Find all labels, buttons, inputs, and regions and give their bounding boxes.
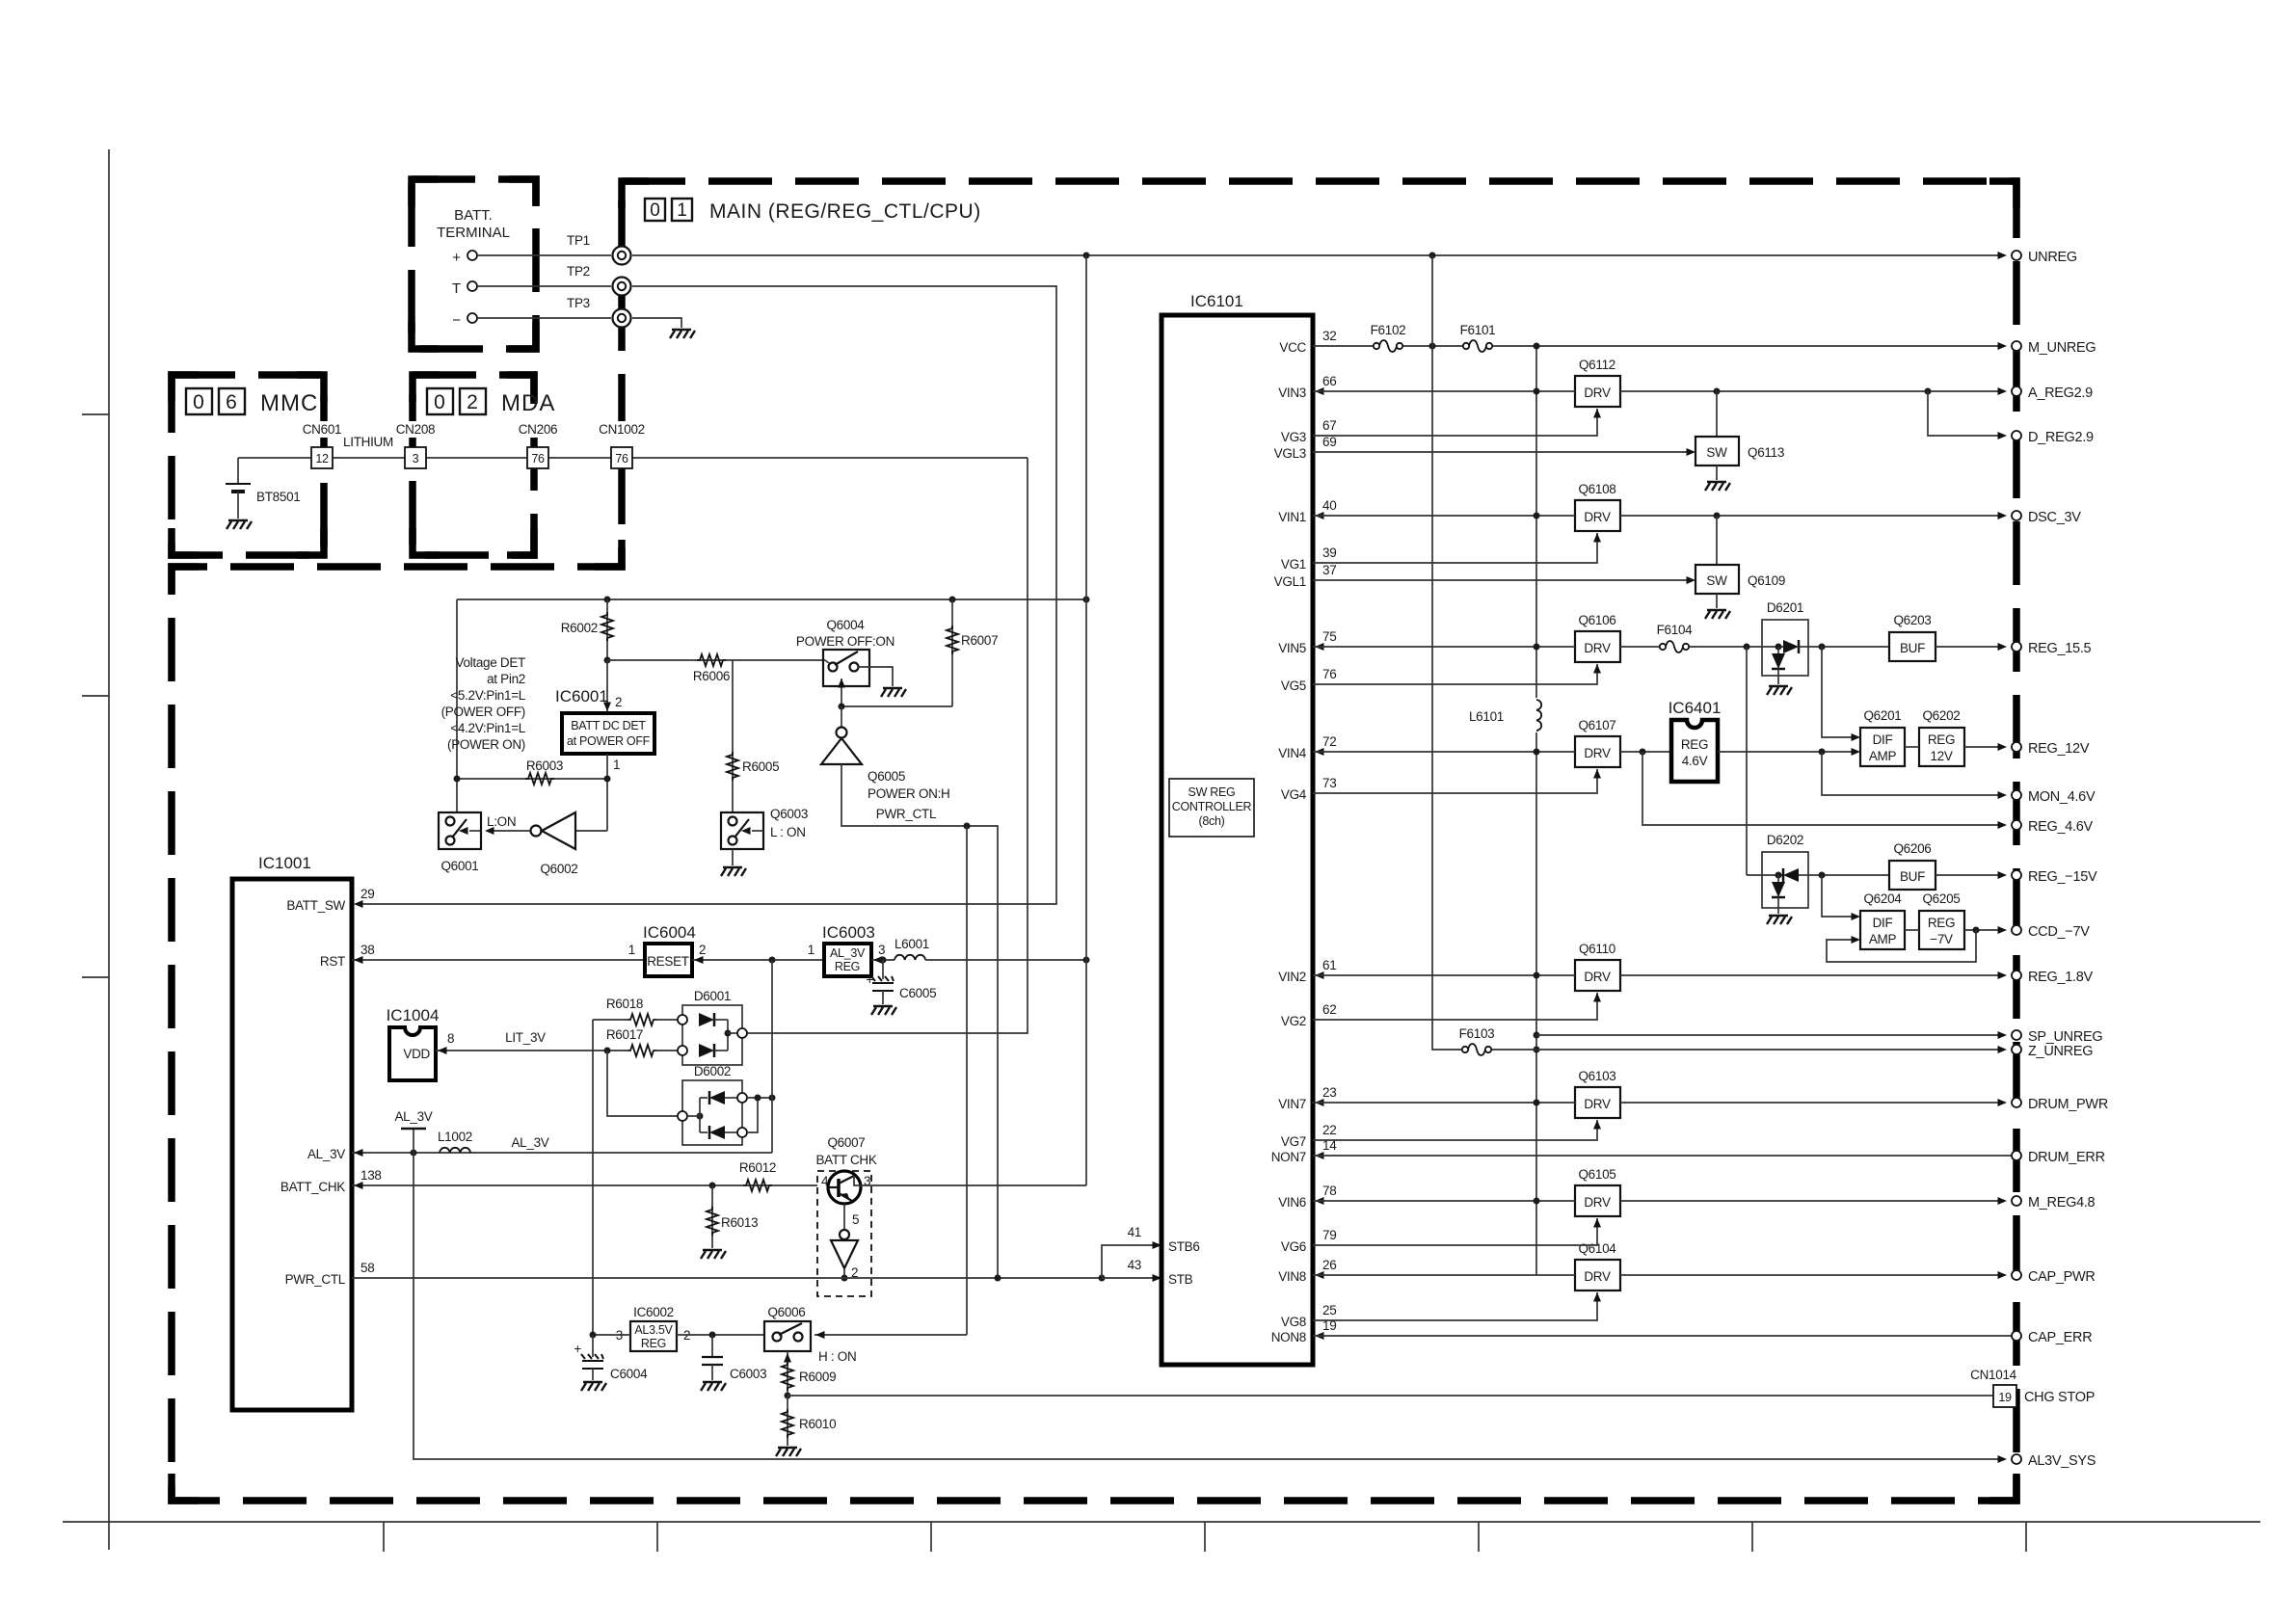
svg-text:CN1002: CN1002 <box>599 422 645 437</box>
svg-text:VG3: VG3 <box>1281 430 1306 444</box>
node REG_4.6V <box>2012 820 2021 830</box>
svg-text:REG: REG <box>1928 732 1955 747</box>
svg-text:D6002: D6002 <box>694 1064 731 1078</box>
svg-text:69: 69 <box>1322 435 1336 449</box>
svg-text:66: 66 <box>1322 374 1336 388</box>
svg-text:CAP_PWR: CAP_PWR <box>2028 1269 2096 1285</box>
wire R6007 bottom to Q6005 node <box>841 705 952 707</box>
svg-text:IC6401: IC6401 <box>1669 699 1722 717</box>
ground Q6109 <box>1705 610 1730 619</box>
svg-text:CONTROLLER: CONTROLLER <box>1172 800 1252 813</box>
svg-text:Q6204: Q6204 <box>1863 891 1902 906</box>
svg-text:VG7: VG7 <box>1281 1134 1306 1149</box>
svg-text:Q6205: Q6205 <box>1922 891 1960 906</box>
connector CN206 pin 76 <box>513 421 563 468</box>
fuse F6103 <box>1462 1044 1491 1055</box>
node SP_UNREG <box>2012 1030 2021 1040</box>
svg-text:VGL3: VGL3 <box>1274 446 1306 461</box>
svg-text:DRV: DRV <box>1584 386 1611 400</box>
svg-text:73: 73 <box>1322 776 1336 790</box>
svg-text:L:ON: L:ON <box>487 814 516 829</box>
wire VG to DRV <box>1313 664 1597 684</box>
svg-text:R6007: R6007 <box>961 633 998 648</box>
svg-text:<4.2V:Pin1=L: <4.2V:Pin1=L <box>450 721 526 735</box>
block BATT.TERMINAL dashed box <box>412 179 536 349</box>
svg-text:RST: RST <box>320 954 345 969</box>
svg-text:REG_−15V: REG_−15V <box>2028 869 2097 885</box>
svg-text:58: 58 <box>360 1261 374 1275</box>
svg-text:SW: SW <box>1706 573 1727 588</box>
svg-text:VGL1: VGL1 <box>1274 574 1306 589</box>
svg-text:R6009: R6009 <box>799 1370 836 1384</box>
wire Q6004 left joins R6006 <box>825 660 829 663</box>
svg-text:CN601: CN601 <box>303 422 342 437</box>
transistor Q6206 BUF <box>1808 874 1889 876</box>
wire CCD feedback loop <box>1827 930 1976 962</box>
transistor Q6113 SW <box>1716 391 1718 437</box>
svg-text:(8ch): (8ch) <box>1199 814 1225 828</box>
svg-text:Q6007: Q6007 <box>827 1135 865 1150</box>
wire T to TP2 <box>477 285 611 287</box>
svg-text:REG: REG <box>641 1337 666 1350</box>
wire BATT_CHK line <box>352 1184 817 1186</box>
svg-text:AL_3V: AL_3V <box>511 1135 548 1150</box>
svg-text:41: 41 <box>1128 1225 1141 1239</box>
svg-text:29: 29 <box>360 887 374 901</box>
svg-text:CN1014: CN1014 <box>1970 1368 2017 1382</box>
wire to BUF Q6203 <box>1808 646 1889 648</box>
wire VG to DRV <box>1313 769 1597 793</box>
svg-text:CCD_−7V: CCD_−7V <box>2028 924 2090 940</box>
svg-text:F6104: F6104 <box>1657 623 1694 637</box>
svg-text:VIN6: VIN6 <box>1278 1195 1306 1210</box>
svg-text:R6005: R6005 <box>742 759 779 774</box>
wire VIN row <box>1313 1274 1575 1276</box>
svg-text:TP3: TP3 <box>567 296 590 310</box>
svg-text:39: 39 <box>1322 545 1336 560</box>
wire VCC row with fuses <box>1313 345 2005 347</box>
svg-text:VIN3: VIN3 <box>1278 386 1306 400</box>
svg-text:D6202: D6202 <box>1767 833 1803 847</box>
svg-text:DRUM_PWR: DRUM_PWR <box>2028 1097 2108 1112</box>
svg-text:DRV: DRV <box>1584 970 1611 984</box>
node DRUM_PWR <box>2012 1098 2021 1107</box>
fuse F6104 <box>1620 646 1659 648</box>
svg-text:REG_15.5: REG_15.5 <box>2028 641 2092 656</box>
svg-text:Q6113: Q6113 <box>1748 445 1784 460</box>
svg-text:23: 23 <box>1322 1085 1336 1100</box>
svg-text:32: 32 <box>1322 329 1336 343</box>
solid corners for dashed borders <box>172 179 2016 1501</box>
wire Q6004 right to ground <box>858 667 893 686</box>
svg-text:Q6112: Q6112 <box>1579 358 1615 372</box>
svg-text:C6005: C6005 <box>899 986 936 1000</box>
svg-text:138: 138 <box>360 1168 382 1183</box>
svg-text:REG: REG <box>1928 916 1955 930</box>
wire VG to DRV <box>1313 1292 1597 1320</box>
svg-text:R6013: R6013 <box>721 1215 758 1230</box>
svg-text:AL_3V: AL_3V <box>307 1147 345 1161</box>
svg-text:72: 72 <box>1322 734 1336 749</box>
svg-text:REG_1.8V: REG_1.8V <box>2028 970 2094 985</box>
svg-text:Q6006: Q6006 <box>767 1305 805 1319</box>
wire VIN row <box>1313 390 1575 392</box>
svg-text:79: 79 <box>1322 1228 1336 1242</box>
svg-text:R6017: R6017 <box>606 1027 643 1042</box>
svg-text:1: 1 <box>808 943 814 957</box>
svg-text:Q6002: Q6002 <box>540 862 577 876</box>
svg-text:37: 37 <box>1322 563 1336 577</box>
connector CN1002 pin 76 <box>594 421 650 468</box>
svg-text:IC6004: IC6004 <box>643 923 696 942</box>
svg-text:DRV: DRV <box>1584 510 1611 524</box>
svg-text:−7V: −7V <box>1930 932 1953 946</box>
svg-text:STB: STB <box>1168 1272 1193 1287</box>
svg-text:PWR_CTL: PWR_CTL <box>285 1272 346 1287</box>
svg-text:IC6101: IC6101 <box>1190 292 1243 310</box>
IC6001 BATT DC DET box <box>606 660 608 711</box>
svg-text:Q6107: Q6107 <box>1578 718 1615 732</box>
svg-text:UNREG: UNREG <box>2028 250 2077 265</box>
svg-text:DRV: DRV <box>1584 1195 1611 1210</box>
wire UNREG vertical branch x1127 <box>1085 255 1087 1185</box>
svg-text:Q6109: Q6109 <box>1748 573 1785 588</box>
svg-text:67: 67 <box>1322 418 1336 433</box>
svg-text:DIF: DIF <box>1873 732 1893 747</box>
fuse F6102 <box>1373 340 1403 352</box>
wire lithium vertical to D6001 output node <box>742 458 1028 1033</box>
svg-text:BATT_CHK: BATT_CHK <box>280 1180 345 1194</box>
node DSC_3V <box>2012 511 2021 520</box>
wire AL3V_SYS long line <box>414 1153 2005 1459</box>
svg-text:Q6110: Q6110 <box>1579 942 1615 956</box>
svg-text:0: 0 <box>434 391 445 413</box>
svg-text:L6001: L6001 <box>894 937 929 951</box>
svg-text:STB6: STB6 <box>1168 1239 1200 1254</box>
wire VIN row <box>1313 515 1575 517</box>
svg-text:REG: REG <box>1681 737 1708 752</box>
svg-text:38: 38 <box>360 943 374 957</box>
svg-text:AL_3V: AL_3V <box>830 946 866 960</box>
node CAP_ERR <box>2012 1331 2021 1341</box>
svg-text:R6018: R6018 <box>606 997 643 1011</box>
node M_UNREG <box>2012 341 2021 351</box>
svg-text:R6010: R6010 <box>799 1417 836 1431</box>
svg-text:Z_UNREG: Z_UNREG <box>2028 1044 2093 1059</box>
arrow UNREG <box>1998 252 2008 259</box>
wire lithium line <box>238 457 1028 459</box>
svg-text:5: 5 <box>852 1212 859 1227</box>
transistor Q6001 switch <box>439 812 481 849</box>
wire D_REG2.9 branch <box>1928 391 2005 436</box>
node M_REG4.8 <box>2012 1196 2021 1206</box>
node CAP_PWR <box>2012 1270 2021 1280</box>
svg-text:CN206: CN206 <box>519 422 558 437</box>
node UNREG <box>2012 251 2021 260</box>
wire VG to DRV <box>1313 1218 1597 1245</box>
svg-text:Q6103: Q6103 <box>1578 1069 1615 1083</box>
svg-text:Q6203: Q6203 <box>1893 613 1931 627</box>
resistor R6002 <box>606 599 608 660</box>
svg-text:VIN4: VIN4 <box>1278 746 1307 760</box>
svg-text:R6012: R6012 <box>739 1160 776 1175</box>
wire STB6 branch <box>1102 1245 1154 1278</box>
node A_REG2.9 <box>2012 386 2021 396</box>
capacitor C6004 <box>592 1335 594 1357</box>
svg-text:CHG STOP: CHG STOP <box>2024 1390 2095 1405</box>
wire Q6007 pin3 to x1127 <box>875 1184 1086 1186</box>
buffer Q6005 POWER ON:H <box>841 706 842 728</box>
svg-text:Q6106: Q6106 <box>1578 613 1615 627</box>
node MON_4.6V <box>2012 790 2021 800</box>
svg-text:AL3.5V: AL3.5V <box>634 1323 673 1337</box>
node REG_-15V <box>2012 870 2021 880</box>
title 02 MDA <box>427 388 555 416</box>
svg-text:AL_3V: AL_3V <box>394 1109 432 1124</box>
svg-text:NON8: NON8 <box>1271 1330 1306 1344</box>
wire VG to DRV <box>1313 533 1597 563</box>
wire - to TP3 <box>477 317 611 319</box>
svg-text:Voltage DET: Voltage DET <box>456 655 526 670</box>
svg-text:43: 43 <box>1128 1258 1141 1272</box>
svg-text:C6003: C6003 <box>730 1367 766 1381</box>
svg-text:R6006: R6006 <box>693 669 730 683</box>
svg-text:VG2: VG2 <box>1281 1014 1306 1028</box>
svg-text:MAIN (REG/REG_CTL/CPU): MAIN (REG/REG_CTL/CPU) <box>709 200 981 223</box>
svg-text:C6004: C6004 <box>610 1367 648 1381</box>
svg-text:VG5: VG5 <box>1281 678 1306 693</box>
svg-text:12V: 12V <box>1930 749 1952 763</box>
svg-text:61: 61 <box>1322 958 1336 972</box>
ground BT8501 <box>227 520 252 529</box>
svg-text:BUF: BUF <box>1900 641 1925 655</box>
node DRUM_ERR <box>2012 1151 2021 1160</box>
connector CN208 pin 3 <box>390 421 441 468</box>
resistor R6007 <box>951 599 953 706</box>
wire A_REG2.9 output <box>1620 390 2005 392</box>
svg-text:VIN2: VIN2 <box>1278 970 1306 984</box>
svg-text:T: T <box>452 280 461 297</box>
wire REG_4.6V branch <box>1642 752 2005 825</box>
wire VG to DRV <box>1313 1120 1597 1140</box>
svg-text:22: 22 <box>1322 1123 1336 1137</box>
svg-text:Q6202: Q6202 <box>1922 708 1960 723</box>
svg-text:<5.2V:Pin1=L: <5.2V:Pin1=L <box>450 688 526 703</box>
svg-text:DRUM_ERR: DRUM_ERR <box>2028 1150 2105 1165</box>
svg-text:VG4: VG4 <box>1281 787 1307 802</box>
resistor R6013 <box>711 1185 713 1248</box>
svg-text:POWER ON:H: POWER ON:H <box>868 786 950 801</box>
svg-text:62: 62 <box>1322 1002 1336 1017</box>
svg-text:MMC: MMC <box>260 390 318 416</box>
title 06 MMC <box>186 388 318 416</box>
wire VIN row <box>1313 1102 1575 1104</box>
resistor R6003 <box>457 778 607 780</box>
svg-text:DRV: DRV <box>1584 1269 1611 1284</box>
svg-text:TERMINAL: TERMINAL <box>437 225 510 241</box>
svg-text:Q6206: Q6206 <box>1893 841 1931 856</box>
svg-text:Q6005: Q6005 <box>868 769 905 784</box>
wire DRUM_PWR output <box>1620 1102 2005 1104</box>
svg-text:DSC_3V: DSC_3V <box>2028 510 2081 525</box>
svg-text:M_REG4.8: M_REG4.8 <box>2028 1195 2096 1211</box>
svg-text:H : ON: H : ON <box>818 1349 856 1364</box>
svg-text:F6103: F6103 <box>1459 1026 1495 1041</box>
wire VGL1 to SW <box>1313 579 1688 581</box>
svg-text:Q6108: Q6108 <box>1578 482 1615 496</box>
svg-text:R6003: R6003 <box>526 758 563 773</box>
resistor R6010 <box>787 1396 788 1446</box>
svg-text:76: 76 <box>1322 667 1336 681</box>
block 01 MAIN dashed outline <box>172 181 2016 1501</box>
svg-text:F6102: F6102 <box>1371 323 1406 337</box>
svg-text:2: 2 <box>699 943 706 957</box>
svg-text:IC6001: IC6001 <box>555 687 608 705</box>
node REG_1.8V <box>2012 971 2021 980</box>
svg-text:4: 4 <box>821 1174 829 1188</box>
pin 8 LIT_3V <box>436 1050 627 1051</box>
svg-text:+: + <box>452 250 461 266</box>
svg-text:(POWER OFF): (POWER OFF) <box>441 705 525 719</box>
svg-text:CN208: CN208 <box>396 422 436 437</box>
svg-text:0: 0 <box>650 200 660 221</box>
inverter Q6002 <box>575 830 607 832</box>
block 06 MMC dashed box <box>172 375 324 555</box>
wire TP3 to ground <box>632 318 681 328</box>
svg-text:VG1: VG1 <box>1281 557 1306 572</box>
wire REG_1.8V output <box>1620 974 2005 976</box>
svg-text:12: 12 <box>315 452 329 466</box>
resistor R6012 <box>743 1180 772 1191</box>
svg-text:D6201: D6201 <box>1767 600 1803 615</box>
svg-text:BT8501: BT8501 <box>256 490 300 504</box>
svg-text:L1002: L1002 <box>438 1130 472 1144</box>
svg-text:TP1: TP1 <box>567 233 590 248</box>
capacitor C6003 <box>711 1335 713 1357</box>
svg-text:F6101: F6101 <box>1460 323 1496 337</box>
svg-text:IC6003: IC6003 <box>822 923 875 942</box>
svg-text:−: − <box>452 312 461 329</box>
svg-text:6: 6 <box>226 391 237 413</box>
ground Q6003 <box>732 849 734 865</box>
svg-text:2: 2 <box>467 391 478 413</box>
svg-text:BATT_SW: BATT_SW <box>286 898 345 913</box>
svg-text:8: 8 <box>447 1031 454 1046</box>
svg-text:TP2: TP2 <box>567 264 590 279</box>
svg-text:4.6V: 4.6V <box>1682 754 1708 768</box>
transistor Q6003 switch <box>721 812 763 849</box>
svg-text:VIN7: VIN7 <box>1278 1097 1306 1111</box>
capacitor C6005 <box>882 960 884 979</box>
AL_3V rail symbol <box>413 1129 414 1153</box>
svg-text:SP_UNREG: SP_UNREG <box>2028 1029 2102 1045</box>
wire AL_3V net vertical from IC6003 junction <box>771 960 773 1153</box>
wire IC6003 input <box>871 959 894 961</box>
svg-text:L : ON: L : ON <box>770 825 806 839</box>
svg-text:+: + <box>574 1342 581 1356</box>
wire RST line <box>352 959 645 961</box>
title 01 MAIN (REG/REG_CTL/CPU) <box>645 199 981 223</box>
resistor R6005 <box>732 660 734 812</box>
svg-text:1: 1 <box>613 758 620 772</box>
wire VG to DRV <box>1313 409 1597 436</box>
svg-text:40: 40 <box>1322 498 1336 513</box>
connector CN601 pin 12 <box>297 421 347 468</box>
svg-text:BATT.: BATT. <box>454 207 493 224</box>
svg-text:SW REG: SW REG <box>1188 785 1236 799</box>
wire DSC_3V output <box>1620 515 2005 517</box>
wire unreg branch x1486 <box>1432 255 1461 1050</box>
svg-text:A_REG2.9: A_REG2.9 <box>2028 386 2093 401</box>
svg-text:VIN1: VIN1 <box>1278 510 1306 524</box>
svg-text:DRV: DRV <box>1584 1097 1611 1111</box>
wire Q6107 to IC6401 <box>1620 751 1671 753</box>
svg-text:CAP_ERR: CAP_ERR <box>2028 1330 2092 1345</box>
svg-text:LIT_3V: LIT_3V <box>505 1030 546 1045</box>
wire AL_3V line to IC1001 <box>352 1152 772 1154</box>
svg-text:POWER OFF:ON: POWER OFF:ON <box>796 634 894 649</box>
svg-text:L6101: L6101 <box>1469 709 1504 724</box>
svg-text:BATT CHK: BATT CHK <box>815 1153 876 1167</box>
wire M_REG4.8 output <box>1620 1200 2005 1202</box>
svg-text:M_UNREG: M_UNREG <box>2028 340 2096 356</box>
wire PWR_CTL / STB line <box>352 1277 1102 1279</box>
svg-text:Q6003: Q6003 <box>770 807 808 821</box>
svg-text:Q6105: Q6105 <box>1578 1167 1615 1182</box>
svg-text:0: 0 <box>193 391 204 413</box>
wire VG to DRV <box>1313 993 1597 1020</box>
svg-text:PWR_CTL: PWR_CTL <box>876 807 937 821</box>
wire PWR_CTL from Q6005 <box>841 764 998 1278</box>
wire VIN row <box>1313 974 1575 976</box>
svg-text:76: 76 <box>615 452 628 466</box>
svg-text:at Pin2: at Pin2 <box>487 672 525 686</box>
wire VIN row <box>1313 1200 1575 1202</box>
svg-text:Q6004: Q6004 <box>826 618 865 632</box>
svg-text:REG_12V: REG_12V <box>2028 741 2090 757</box>
wire CHG STOP line <box>788 1395 1993 1397</box>
svg-text:D_REG2.9: D_REG2.9 <box>2028 430 2094 445</box>
svg-text:26: 26 <box>1322 1258 1336 1272</box>
svg-text:DIF: DIF <box>1873 916 1893 930</box>
svg-text:VCC: VCC <box>1279 340 1306 355</box>
svg-text:1: 1 <box>677 200 687 221</box>
node Z_UNREG <box>2012 1045 2021 1054</box>
svg-text:MDA: MDA <box>501 390 555 416</box>
svg-text:at POWER OFF: at POWER OFF <box>567 734 651 748</box>
ground D6201 <box>1767 686 1792 695</box>
svg-text:75: 75 <box>1322 629 1336 644</box>
wire DRUM_ERR (NON7) <box>1313 1155 2012 1157</box>
wire + to TP1 <box>477 254 611 256</box>
svg-text:VIN5: VIN5 <box>1278 641 1306 655</box>
wire main unreg rail vertical <box>1535 346 1537 698</box>
IC6001 pin 1 <box>606 754 608 831</box>
resistor R6006 <box>607 659 825 661</box>
svg-text:REG_4.6V: REG_4.6V <box>2028 819 2094 835</box>
ground D6202 <box>1767 916 1792 924</box>
svg-text:VIN8: VIN8 <box>1278 1269 1306 1284</box>
wire D6202 feed vertical <box>1746 647 1748 875</box>
svg-text:76: 76 <box>531 452 545 466</box>
svg-text:D6001: D6001 <box>694 989 731 1003</box>
wire rail to R6003 junction <box>456 599 458 812</box>
wire Q6007 bottom to H:ON line <box>814 1334 967 1336</box>
wire VIN row <box>1313 751 1575 753</box>
svg-text:3: 3 <box>413 452 419 466</box>
ground TP3 <box>670 330 695 338</box>
wire CAP_ERR (NON8) <box>1313 1335 2012 1337</box>
